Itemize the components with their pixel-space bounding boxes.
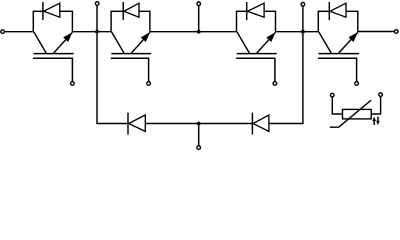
gate terminal G1	[71, 82, 75, 86]
wire: terminal 3 stub down to bus	[198, 6, 200, 32]
up arrow mark	[373, 120, 375, 126]
node E (lower rail center junction)	[197, 122, 201, 126]
diode D1 (anti-parallel freewheel diode of IGBT 1)	[33, 2, 72, 20]
diode D2 (anti-parallel freewheel diode of IGBT 2)	[111, 2, 150, 20]
terminal 2 (top, T1/T2 midpoint)	[95, 2, 99, 6]
resistor body R1	[343, 109, 372, 119]
gate terminal G2	[147, 82, 151, 86]
wire: left terminal to T1	[4, 31, 33, 33]
node D (lower rail left corner)	[96, 123, 128, 125]
wire: diode D3 right leg down to emitter node	[275, 11, 277, 32]
wire: diode D2 left leg down to collector node	[110, 11, 112, 32]
transistor T3 (IGBT)	[236, 32, 277, 81]
wire: diode D4 left leg down to collector node	[317, 11, 319, 32]
diode D4 (anti-parallel freewheel diode of IGBT 4)	[318, 2, 358, 20]
wire: terminal 2 stub down through bus to lower diode rail	[96, 5, 98, 123]
wire: diode D2 right leg down to emitter node	[149, 11, 151, 32]
terminal 6 (bottom center)	[197, 146, 201, 150]
wire: NTC right lead	[371, 96, 380, 114]
wire: T3 emitter to T4 collector bus	[276, 31, 319, 33]
wire: terminal 4 stub down through bus to lower diode rail	[302, 6, 304, 123]
terminal 4 (top, T3/T4 midpoint)	[301, 3, 305, 7]
wire: diode D4 right leg down to emitter node	[357, 11, 359, 32]
wire: center junction stub down to terminal 6	[198, 124, 200, 146]
terminal 3 (top, T2/T3 midpoint)	[197, 2, 201, 6]
thermistor slash mark	[330, 100, 371, 127]
node A (junction T1-T2 bus / terminal 2)	[95, 30, 99, 34]
terminal 7 (NTC left)	[331, 93, 335, 97]
node B (junction T2-T3 bus / terminal 3)	[197, 30, 201, 34]
wire: T1 emitter to T2 collector bus	[72, 31, 111, 33]
transistor T1 (IGBT)	[33, 32, 74, 81]
wire: T4 emitter to right terminal	[358, 31, 395, 33]
thermistor R1 (NTC temperature sensor)	[330, 93, 383, 127]
gate terminal G3	[273, 82, 277, 86]
wire: lower rail D6 anode to right riser	[269, 123, 304, 125]
diode D6 (lower right rectifier diode)	[252, 113, 269, 135]
wire: lower rail D5 anode to center node	[145, 123, 252, 125]
transistor T2 (IGBT)	[111, 32, 151, 81]
wire: diode D1 left leg down to collector node	[32, 11, 34, 32]
wire: diode D1 right leg down to emitter node	[71, 11, 73, 32]
transistor T4 (IGBT)	[318, 32, 359, 81]
down arrow mark	[377, 117, 379, 123]
wire: diode D3 left leg down to collector node	[236, 11, 238, 32]
wire: T2 emitter to T3 collector bus	[150, 31, 237, 33]
diode D3 (anti-parallel freewheel diode of IGBT 3)	[237, 2, 276, 20]
diode D5 (lower left rectifier diode)	[128, 113, 145, 135]
terminal 8 (NTC right)	[379, 93, 383, 97]
terminal 1 (left collector terminal)	[1, 30, 5, 34]
wire: NTC left lead	[332, 97, 342, 114]
node C (junction T3-T4 bus / terminal 4)	[301, 30, 305, 34]
gate terminal G4	[355, 82, 359, 86]
terminal 5 (right emitter terminal)	[395, 30, 399, 34]
